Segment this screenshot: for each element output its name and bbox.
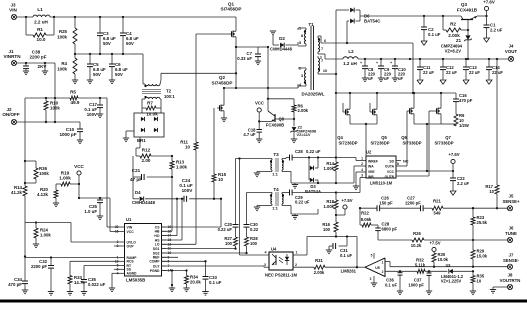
resistor R31 bbox=[314, 265, 325, 269]
wire U1 COMP net bbox=[162, 260, 206, 262]
transformer T1 primary winding lower bbox=[304, 70, 306, 84]
resistor R10 bbox=[45, 98, 47, 101]
wire U1 VIN bbox=[107, 226, 120, 228]
svg-text:CMHD4448: CMHD4448 bbox=[132, 200, 155, 205]
svg-text:2: 2 bbox=[295, 263, 297, 267]
ground R20 bbox=[53, 202, 59, 204]
transformer T2 100:1 sense winding top bbox=[143, 83, 145, 85]
ground C14 bbox=[486, 80, 492, 84]
wire U1 LO net bbox=[162, 243, 197, 245]
svg-text:R12: R12 bbox=[142, 148, 151, 153]
svg-text:SD: SD bbox=[389, 159, 394, 163]
svg-text:R5: R5 bbox=[70, 90, 76, 95]
svg-text:LM5035B: LM5035B bbox=[126, 278, 145, 283]
transformer T1 secondary winding lower bbox=[318, 58, 320, 72]
wire HS riser x177 bbox=[176, 199, 178, 236]
ground R34 bbox=[183, 287, 189, 289]
svg-text:10: 10 bbox=[185, 145, 190, 150]
wire J7 sense line bbox=[390, 266, 508, 268]
ground T4 net bbox=[294, 214, 296, 216]
capacitor C13 bbox=[465, 59, 467, 67]
ground U2 bbox=[353, 185, 359, 187]
svg-text:U3: U3 bbox=[446, 264, 451, 268]
resistor R16 100 bbox=[334, 222, 338, 232]
wire Q1 drain bbox=[235, 17, 237, 31]
ground R35 bbox=[470, 290, 476, 292]
svg-text:R21: R21 bbox=[433, 199, 441, 204]
resistor R1 bbox=[25, 17, 27, 35]
svg-text:100:1: 100:1 bbox=[164, 94, 175, 99]
svg-text:100k: 100k bbox=[50, 106, 60, 111]
svg-text:22 uF: 22 uF bbox=[446, 70, 457, 75]
svg-text:VINRTN: VINRTN bbox=[3, 54, 21, 59]
wire VOUT sense drop bbox=[496, 59, 498, 185]
transformer T2 core bbox=[142, 89, 161, 91]
wire U2 OUTB to Q7 gate bbox=[396, 175, 429, 177]
svg-text:2.00k: 2.00k bbox=[298, 108, 309, 113]
wire T3 left-bottom ground bbox=[257, 171, 272, 173]
wire VOUT rail bbox=[358, 58, 508, 60]
svg-text:OUTA: OUTA bbox=[385, 165, 395, 169]
capacitor C36 bbox=[399, 271, 401, 272]
wire J6 line bbox=[378, 239, 412, 241]
svg-text:Q3: Q3 bbox=[461, 2, 468, 7]
svg-text:8: 8 bbox=[301, 34, 303, 38]
svg-text:Q2: Q2 bbox=[219, 75, 226, 80]
wire switch node horizontal bbox=[161, 72, 236, 74]
ground D2 bbox=[270, 30, 276, 32]
svg-text:D4: D4 bbox=[135, 190, 141, 195]
svg-text:5: 5 bbox=[299, 41, 301, 45]
wire divider bus lower bbox=[24, 196, 26, 281]
inductor L1 bbox=[33, 15, 50, 17]
svg-text:49.9: 49.9 bbox=[71, 100, 80, 105]
wire T3 left-top net bbox=[271, 159, 273, 161]
svg-text:SENSE+: SENSE+ bbox=[502, 199, 520, 204]
svg-text:1.00k: 1.00k bbox=[324, 204, 335, 209]
svg-text:4.12k: 4.12k bbox=[37, 192, 49, 197]
capacitor C28 6800pF bbox=[377, 225, 379, 228]
wire U2 VCC to +7.5V bbox=[396, 170, 453, 172]
wire T3 to U2 INA bbox=[353, 166, 355, 183]
resistor R4 bbox=[73, 58, 77, 74]
svg-text:15.0k: 15.0k bbox=[477, 254, 488, 259]
op-amp U5 LM8261 bbox=[365, 258, 385, 277]
mosfet Q6 SI7336DP bbox=[407, 110, 410, 112]
svg-text:10: 10 bbox=[323, 69, 327, 73]
svg-text:1000 pF: 1000 pF bbox=[59, 132, 76, 137]
wire U1 DLY to opto bbox=[162, 265, 265, 267]
svg-text:R1: R1 bbox=[37, 27, 43, 32]
svg-text:0.1 uF: 0.1 uF bbox=[428, 32, 441, 37]
op-amp U1 LM5035B box bbox=[125, 224, 162, 277]
op-amp U4 optocoupler PS2811 bbox=[269, 252, 293, 270]
wire midrail to T2 bbox=[130, 53, 143, 55]
wire U1 HO net bbox=[162, 235, 178, 237]
svg-text:L1: L1 bbox=[37, 7, 43, 12]
ground T3 net bbox=[294, 183, 296, 185]
ground C33 bbox=[202, 291, 208, 293]
svg-text:VZ=11V: VZ=11V bbox=[297, 132, 311, 137]
wire HB riser x172 bbox=[171, 177, 173, 231]
svg-text:0.22: 0.22 bbox=[250, 227, 259, 232]
capacitor C31 bbox=[346, 237, 348, 247]
svg-text:7: 7 bbox=[321, 47, 323, 51]
capacitor C5 bbox=[89, 54, 91, 64]
svg-text:NEC PS2811-1M: NEC PS2811-1M bbox=[265, 273, 297, 278]
wire UVLO net bbox=[36, 222, 71, 224]
resistor R7 bbox=[142, 98, 145, 100]
svg-text:10.0k: 10.0k bbox=[146, 112, 158, 117]
wire lower input line bbox=[385, 270, 417, 272]
svg-text:10.0k: 10.0k bbox=[438, 257, 449, 262]
svg-text:2: 2 bbox=[299, 67, 301, 71]
wire op-amp ground pin bbox=[373, 276, 375, 283]
svg-text:SI7236DP: SI7236DP bbox=[370, 141, 389, 146]
svg-text:47 pF: 47 pF bbox=[130, 177, 142, 182]
svg-text:1000 pF: 1000 pF bbox=[408, 283, 424, 288]
svg-text:BR1: BR1 bbox=[137, 138, 146, 143]
svg-text:0.22 uF: 0.22 uF bbox=[295, 200, 310, 205]
svg-text:1.0 uF: 1.0 uF bbox=[84, 209, 97, 214]
svg-text:22 uF: 22 uF bbox=[423, 70, 434, 75]
svg-text:2.00: 2.00 bbox=[142, 158, 151, 163]
diode D3b BAT54A bbox=[308, 168, 310, 180]
wire J1 rail bbox=[17, 62, 55, 64]
wire +7.6V feed rail bbox=[360, 15, 443, 17]
svg-text:8.06k: 8.06k bbox=[361, 217, 372, 222]
ground U1 PGND bbox=[169, 287, 175, 289]
wire VINRTN bus bbox=[54, 63, 56, 122]
wire OVP stub bbox=[114, 245, 120, 247]
capacitor C16 bbox=[455, 93, 457, 99]
wire SS stub bbox=[114, 268, 120, 270]
wire U2 SD NC bbox=[396, 160, 401, 162]
svg-text:Q7: Q7 bbox=[445, 135, 451, 140]
ground J8 bbox=[490, 289, 496, 291]
ground C17 bbox=[97, 113, 103, 115]
svg-text:R4: R4 bbox=[61, 61, 67, 66]
capacitor C17 bbox=[99, 98, 101, 105]
wire VCC drop to U1 bbox=[109, 198, 111, 232]
svg-text:J6: J6 bbox=[509, 226, 514, 231]
capacitor C37 bbox=[428, 271, 430, 273]
svg-text:1.00k: 1.00k bbox=[324, 166, 335, 171]
svg-text:LM5110-1M: LM5110-1M bbox=[370, 181, 393, 186]
svg-text:T3: T3 bbox=[273, 152, 279, 157]
resistor R2 bbox=[442, 16, 444, 30]
resistor R19 bbox=[70, 183, 79, 185]
wire J3 to L1 bbox=[17, 16, 33, 18]
ground Q2 bbox=[221, 117, 227, 119]
diode D3a BAT54A bbox=[308, 158, 310, 169]
svg-text:+7.5V: +7.5V bbox=[341, 198, 352, 203]
capacitor C18 bbox=[256, 129, 262, 131]
wire T4 bottom net bbox=[291, 213, 318, 215]
ground R24 bbox=[33, 243, 39, 245]
ground C38 bbox=[23, 70, 29, 72]
ground C9 bbox=[378, 77, 384, 79]
svg-text:100V: 100V bbox=[182, 188, 194, 193]
resistor R21 bbox=[432, 206, 443, 210]
ground C11 bbox=[417, 80, 423, 84]
svg-text:4.7 uF: 4.7 uF bbox=[243, 132, 256, 137]
svg-text:100V: 100V bbox=[87, 112, 97, 117]
svg-text:2.2 uF: 2.2 uF bbox=[490, 28, 503, 33]
svg-text:VCC: VCC bbox=[127, 230, 135, 234]
wire T1 pin10 out bbox=[321, 73, 336, 75]
svg-text:2.2 uF: 2.2 uF bbox=[457, 181, 470, 186]
earth C2 bbox=[421, 41, 427, 45]
op-amp U2 LM5110-1M box bbox=[366, 156, 396, 178]
capacitor C9 bbox=[380, 59, 382, 66]
ground T4 left bbox=[254, 206, 260, 208]
wire VCC to C25 bbox=[79, 197, 110, 199]
svg-text:U1: U1 bbox=[126, 217, 132, 222]
svg-text:SI7456DP: SI7456DP bbox=[221, 7, 242, 12]
capacitor C28 T3 bbox=[286, 157, 289, 159]
ground C31 bbox=[326, 249, 332, 251]
resistor R34 bbox=[186, 271, 188, 276]
svg-text:D2: D2 bbox=[279, 36, 285, 41]
svg-text:0.1 uF: 0.1 uF bbox=[385, 283, 398, 288]
ground C35 bbox=[81, 291, 87, 293]
svg-text:0.1 uF: 0.1 uF bbox=[209, 280, 222, 285]
capacitor C27 bbox=[420, 205, 422, 211]
svg-text:SI7236DP: SI7236DP bbox=[338, 141, 357, 146]
wire U1 CS net bbox=[162, 226, 222, 228]
wire Q1 source to switch node bbox=[235, 37, 237, 88]
wire T4 right pins bbox=[281, 193, 283, 195]
svg-text:L2: L2 bbox=[348, 49, 354, 54]
capacitor C22 bbox=[452, 171, 454, 178]
svg-text:VCC: VCC bbox=[74, 164, 84, 169]
svg-text:DLY: DLY bbox=[153, 264, 160, 268]
resistor R18 bbox=[335, 193, 337, 201]
wire op-amp supply stub top bbox=[373, 253, 375, 259]
capacitor C1 bbox=[486, 16, 488, 25]
svg-text:50V: 50V bbox=[93, 72, 101, 77]
svg-text:SI7336DP: SI7336DP bbox=[402, 141, 421, 146]
wire U1 REF net bbox=[162, 256, 179, 258]
wire Q2 source bbox=[223, 111, 225, 118]
svg-text:+7.5V: +7.5V bbox=[448, 152, 459, 157]
svg-text:FCX690B: FCX690B bbox=[266, 123, 284, 128]
wire VCC stem bbox=[258, 112, 260, 129]
svg-text:2200 pF: 2200 pF bbox=[29, 55, 46, 60]
capacitor C12 bbox=[442, 59, 444, 67]
svg-text:Z1: Z1 bbox=[456, 38, 462, 43]
resistor R5 bbox=[70, 96, 78, 100]
svg-text:+: + bbox=[376, 61, 378, 65]
svg-text:VEE: VEE bbox=[368, 170, 375, 174]
resistor R25 bbox=[74, 17, 76, 28]
svg-text:OUTB: OUTB bbox=[385, 175, 395, 179]
capacitor C10 bbox=[394, 59, 396, 66]
svg-text:AGND: AGND bbox=[127, 272, 138, 276]
svg-text:U2: U2 bbox=[366, 150, 372, 155]
zener Z1 CMPZ4694 bbox=[465, 35, 470, 39]
svg-text:20.0k: 20.0k bbox=[190, 280, 201, 285]
wire pin6 to rectifier rail bbox=[412, 43, 414, 93]
svg-text:PGND: PGND bbox=[150, 269, 160, 273]
capacitor C6 bbox=[111, 54, 113, 64]
ground C10b bbox=[77, 139, 83, 141]
svg-text:SG1: SG1 bbox=[153, 247, 160, 251]
svg-text:R31: R31 bbox=[315, 258, 323, 263]
wire divider bus upper bbox=[24, 98, 26, 186]
svg-text:2.00k: 2.00k bbox=[314, 270, 325, 275]
svg-text:T4: T4 bbox=[273, 187, 279, 192]
zener Z2 CMPZ4698 bbox=[293, 119, 295, 127]
capacitor C8 bbox=[364, 59, 366, 66]
capacitor C32 bbox=[50, 258, 52, 266]
wire opto pin1 bbox=[293, 254, 307, 256]
svg-text:R7: R7 bbox=[147, 101, 153, 106]
earth C22 bbox=[450, 191, 456, 195]
ground U1 AGND bbox=[109, 287, 115, 289]
svg-text:J8: J8 bbox=[508, 273, 513, 278]
wire T3 to U2 INREF bbox=[336, 157, 356, 159]
svg-text:NC: NC bbox=[403, 160, 409, 164]
svg-text:CMHD4448: CMHD4448 bbox=[270, 47, 293, 52]
wire RAMP net bbox=[25, 257, 120, 259]
svg-text:VZ=8.2V: VZ=8.2V bbox=[445, 49, 462, 54]
resistor R6 bbox=[293, 99, 295, 105]
wire U1 PGND net bbox=[162, 270, 187, 272]
svg-text:VIN: VIN bbox=[127, 225, 133, 229]
svg-text:TUNE: TUNE bbox=[505, 231, 517, 236]
wire opto pin2 to R31 bbox=[293, 266, 314, 268]
wire T1 pin9 center bbox=[321, 53, 325, 55]
shunt U3 LM4041-1.2 bbox=[449, 269, 453, 274]
ground C7 bbox=[255, 60, 261, 62]
resistor R22 bbox=[359, 208, 361, 225]
resistor R24 bbox=[35, 221, 37, 223]
ground C37 bbox=[426, 290, 432, 292]
svg-text:1: 1 bbox=[361, 157, 363, 161]
resistor R15 bbox=[213, 108, 215, 174]
svg-text:10.2k: 10.2k bbox=[411, 243, 422, 248]
svg-text:25.5k: 25.5k bbox=[477, 220, 488, 225]
svg-text:C28: C28 bbox=[295, 149, 303, 154]
svg-text:VOUTRTN: VOUTRTN bbox=[500, 278, 521, 283]
svg-text:1.00k: 1.00k bbox=[59, 176, 71, 181]
resistor R27 bbox=[234, 237, 238, 246]
ground Z2 bbox=[291, 138, 297, 140]
capacitor C25 bbox=[99, 198, 101, 200]
svg-text:6: 6 bbox=[324, 39, 326, 43]
wire U1 HB net bbox=[162, 230, 173, 232]
wire Q2 drain bbox=[223, 88, 225, 105]
resistor R32 bbox=[417, 269, 425, 273]
earth C1 bbox=[484, 38, 490, 42]
resistor R9 bbox=[454, 114, 458, 126]
capacitor C10b 1000pF bbox=[79, 122, 81, 129]
wire U1 SG1 net bbox=[162, 248, 236, 250]
resistor R11 gate bus bbox=[195, 42, 197, 142]
ground C32 bbox=[48, 291, 54, 293]
wire U2 VEE ground bbox=[356, 171, 366, 173]
ground op-amp bbox=[371, 282, 377, 284]
svg-text:1:1: 1:1 bbox=[272, 206, 279, 211]
svg-text:1.00k: 1.00k bbox=[176, 165, 188, 170]
svg-text:U5: U5 bbox=[375, 266, 380, 270]
border bottom bbox=[0, 300, 527, 303]
capacitor C7 bbox=[236, 46, 258, 48]
wire x268 link bbox=[267, 47, 269, 88]
svg-text:150 pF: 150 pF bbox=[379, 201, 393, 206]
ground C13 bbox=[463, 80, 469, 84]
svg-text:J7: J7 bbox=[509, 253, 514, 258]
svg-text:INA: INA bbox=[368, 165, 374, 169]
svg-text:1.00k: 1.00k bbox=[40, 233, 51, 238]
ground J1 net bbox=[44, 63, 46, 71]
resistor R13 bbox=[171, 156, 173, 161]
svg-text:R26: R26 bbox=[413, 231, 421, 236]
capacitor C4 bbox=[122, 17, 124, 33]
wire SENSE+ line bbox=[360, 207, 377, 209]
wire Q1 gate bus bbox=[196, 33, 229, 35]
capacitor C33 bbox=[205, 261, 207, 276]
capacitor C34 bbox=[22, 280, 28, 282]
wire R5 rail bbox=[25, 97, 70, 99]
wire rectifier rail bbox=[336, 92, 456, 94]
wire T3 drop to opto bbox=[239, 159, 241, 256]
wire VIN sense drop bbox=[106, 98, 108, 227]
capacitor C3 bbox=[99, 17, 101, 33]
svg-text:41.2k: 41.2k bbox=[11, 190, 23, 195]
wire J8 line bbox=[493, 286, 508, 288]
svg-text:2: 2 bbox=[361, 162, 363, 166]
resistor R28 bbox=[245, 237, 249, 246]
svg-text:LM8261: LM8261 bbox=[341, 269, 357, 274]
wire U2 OUTA to Q6 gate bbox=[396, 165, 407, 167]
svg-text:100k: 100k bbox=[57, 35, 67, 40]
svg-text:3: 3 bbox=[361, 174, 363, 178]
ground C18 bbox=[256, 138, 262, 140]
svg-text:3: 3 bbox=[370, 277, 372, 281]
svg-text:R22: R22 bbox=[361, 211, 369, 216]
svg-text:HO: HO bbox=[154, 234, 159, 238]
svg-text:470 pF: 470 pF bbox=[8, 282, 22, 287]
resistor R14 41.2k bbox=[23, 186, 27, 196]
svg-text:Q4: Q4 bbox=[337, 135, 343, 140]
wire T4 left-top net bbox=[271, 193, 273, 195]
svg-text:10.0: 10.0 bbox=[37, 37, 46, 42]
svg-text:COMP: COMP bbox=[149, 260, 160, 264]
svg-text:C21: C21 bbox=[132, 168, 141, 173]
capacitor C14 bbox=[488, 59, 490, 67]
transformer T1 core bbox=[310, 26, 312, 90]
svg-text:INB: INB bbox=[368, 175, 374, 179]
svg-text:2200 pF: 2200 pF bbox=[31, 264, 47, 269]
ground C10 bbox=[392, 77, 398, 79]
ground R33 bbox=[67, 291, 73, 293]
wire op-amp output bbox=[357, 266, 365, 268]
wire switch node to T1 bbox=[224, 87, 298, 89]
diode D4 CMHD4448 bbox=[132, 177, 134, 199]
wire T3 bottom net bbox=[291, 182, 354, 184]
resistor R29 bbox=[472, 240, 474, 250]
capacitor C35 bbox=[84, 265, 120, 267]
svg-text:8: 8 bbox=[397, 162, 399, 166]
capacitor C30 bbox=[246, 193, 248, 225]
svg-text:SI7336DP: SI7336DP bbox=[434, 141, 453, 146]
svg-text:J4: J4 bbox=[509, 44, 514, 49]
svg-text:uF: uF bbox=[398, 76, 404, 81]
svg-text:1: 1 bbox=[296, 251, 298, 255]
